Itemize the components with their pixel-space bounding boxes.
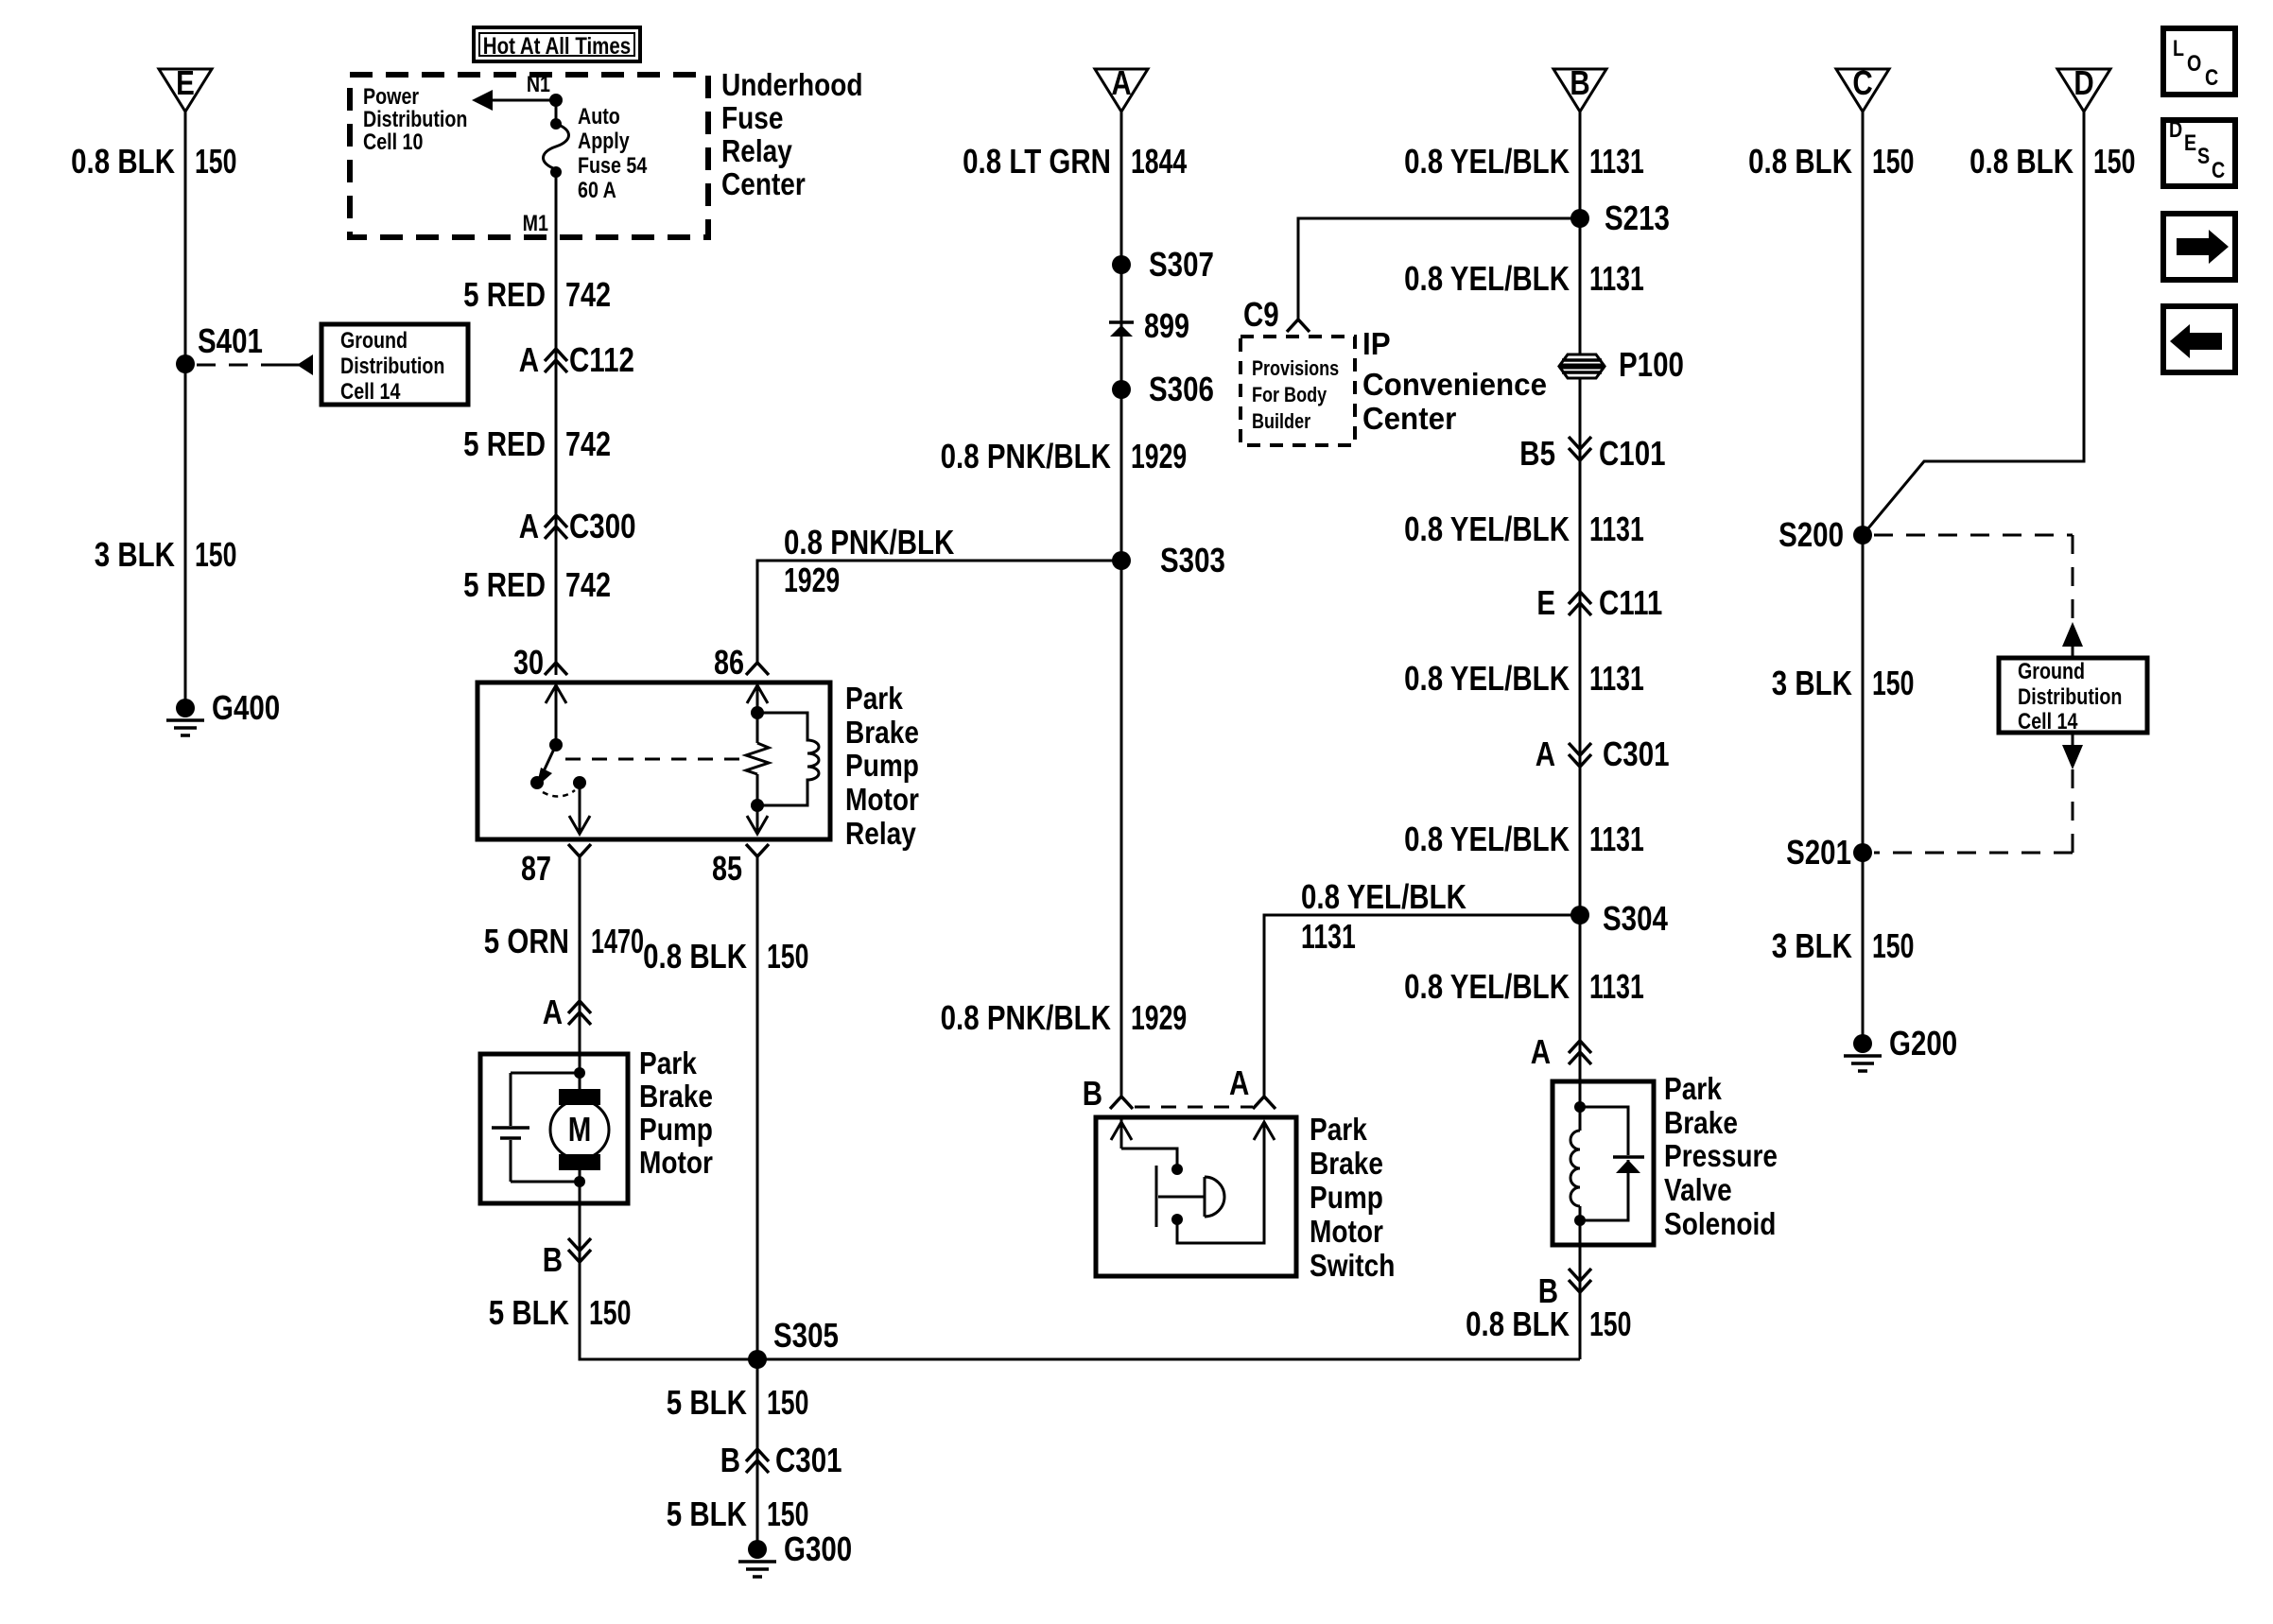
- svg-text:Fuse: Fuse: [721, 101, 783, 136]
- wire S213 to C9: [1298, 218, 1580, 320]
- svg-text:0.8 BLK: 0.8 BLK: [1969, 142, 2073, 180]
- connector triangle A: [1095, 63, 1148, 112]
- splice S200: [1778, 515, 1872, 553]
- svg-text:C: C: [2212, 157, 2225, 182]
- underhood fuse relay center dashed box: [350, 75, 708, 237]
- relay pin 86: [714, 643, 769, 682]
- connector triangle B: [1553, 63, 1606, 112]
- svg-text:D: D: [2073, 63, 2093, 101]
- svg-text:1131: 1131: [1301, 917, 1356, 956]
- svg-text:C301: C301: [775, 1441, 842, 1478]
- svg-text:1131: 1131: [1589, 659, 1644, 698]
- svg-text:Distribution: Distribution: [2018, 683, 2122, 709]
- svg-text:87: 87: [521, 849, 551, 888]
- connector triangle D: [2057, 63, 2110, 112]
- svg-text:0.8 BLK: 0.8 BLK: [1466, 1304, 1570, 1342]
- svg-text:Underhood: Underhood: [721, 68, 863, 103]
- label 0.8 YEL/BLK 1131 (below C111): [1404, 659, 1644, 698]
- splice S307: [1112, 245, 1214, 283]
- label 5 BLK 150 (below S305): [667, 1383, 809, 1422]
- svg-text:Ground: Ground: [340, 327, 408, 353]
- connector C300 pin A: [519, 507, 636, 544]
- dashed leader ground distribution box to S201: [1874, 733, 2083, 853]
- wire relay pin 85 to S305: [756, 856, 759, 1359]
- connector C9: [1243, 295, 1310, 333]
- svg-text:C111: C111: [1599, 583, 1662, 621]
- label 3 BLK 150 (C upper): [1772, 664, 1915, 702]
- svg-text:A: A: [1536, 734, 1555, 772]
- svg-text:Valve: Valve: [1664, 1173, 1732, 1208]
- inline connector P100: [1560, 345, 1684, 383]
- connector solenoid pin B: [1538, 1245, 1591, 1359]
- label Park Brake Pressure Valve Solenoid: [1664, 1072, 1778, 1242]
- svg-text:5 RED: 5 RED: [463, 565, 546, 603]
- svg-text:0.8 YEL/BLK: 0.8 YEL/BLK: [1301, 877, 1466, 915]
- wire A column to switch pin B: [1120, 112, 1123, 1097]
- svg-text:B: B: [720, 1441, 740, 1478]
- wire S303 to relay pin 86: [757, 561, 1121, 663]
- svg-text:Center: Center: [721, 167, 806, 202]
- solenoid park brake pressure valve solenoid box: [1553, 1081, 1654, 1245]
- label Park Brake Pump Motor: [639, 1046, 713, 1181]
- svg-text:Motor: Motor: [639, 1146, 713, 1181]
- label 0.8 LT GRN 1844: [963, 142, 1187, 181]
- switch internals: pressure contacts and pump symbol: [1111, 1119, 1275, 1243]
- svg-text:Motor: Motor: [845, 783, 919, 818]
- splice S201: [1786, 833, 1872, 871]
- switch park brake pump motor switch box: [1096, 1117, 1296, 1276]
- svg-text:Ground: Ground: [2018, 658, 2085, 683]
- solenoid internals: coil with clamp diode: [1570, 1083, 1644, 1245]
- svg-text:Park: Park: [1310, 1113, 1368, 1148]
- svg-text:S303: S303: [1160, 541, 1225, 579]
- svg-text:C301: C301: [1603, 734, 1670, 772]
- svg-text:E: E: [2184, 130, 2196, 155]
- legend left-arrow box: [2163, 306, 2235, 372]
- svg-text:0.8 YEL/BLK: 0.8 YEL/BLK: [1404, 259, 1570, 297]
- label 0.8 YEL/BLK 1131 (below S304): [1404, 967, 1644, 1006]
- label 0.8 PNK/BLK 1929 (upper): [941, 437, 1188, 475]
- svg-text:Builder: Builder: [1252, 410, 1310, 433]
- svg-text:Motor: Motor: [1310, 1215, 1383, 1250]
- svg-text:742: 742: [565, 565, 611, 604]
- svg-text:Hot At All Times: Hot At All Times: [483, 32, 631, 59]
- svg-text:B: B: [1083, 1074, 1102, 1112]
- label 3 BLK 150 (C lower): [1772, 926, 1915, 965]
- splice S305: [748, 1316, 839, 1369]
- svg-text:Park: Park: [1664, 1072, 1723, 1107]
- svg-text:0.8 YEL/BLK: 0.8 YEL/BLK: [1404, 510, 1570, 547]
- label Power Distribution Cell 10: [363, 83, 467, 154]
- connector solenoid pin A: [1531, 1032, 1591, 1070]
- wire motor pin B to S305: [580, 1201, 1580, 1359]
- label 0.8 PNK/BLK 1929 (stacked at 86 wire): [784, 523, 955, 599]
- splice S306: [1112, 370, 1214, 407]
- svg-text:Apply: Apply: [578, 128, 630, 153]
- label 0.8 YEL/BLK 1131 (below C301): [1404, 820, 1644, 858]
- relay pin 30: [513, 643, 567, 682]
- switch pin B: [1083, 1074, 1133, 1112]
- svg-text:C: C: [1852, 63, 1872, 101]
- relay park brake pump motor relay box: [477, 682, 830, 839]
- svg-text:E: E: [1536, 583, 1555, 621]
- svg-text:5 RED: 5 RED: [463, 275, 546, 313]
- label 5 BLK 150 (bottom): [667, 1494, 809, 1533]
- svg-text:D: D: [2169, 116, 2182, 142]
- svg-text:3 BLK: 3 BLK: [1772, 664, 1852, 701]
- splice S401: [176, 321, 263, 373]
- svg-text:150: 150: [1589, 1304, 1631, 1343]
- svg-text:S201: S201: [1786, 833, 1851, 871]
- svg-text:Provisions: Provisions: [1252, 357, 1339, 380]
- svg-text:S305: S305: [773, 1316, 839, 1354]
- svg-text:0.8 YEL/BLK: 0.8 YEL/BLK: [1404, 142, 1570, 180]
- label 0.8 YEL/BLK 1131 (top): [1404, 142, 1644, 181]
- svg-text:30: 30: [513, 643, 544, 682]
- connector motor pin B: [543, 1238, 591, 1279]
- dashed leader S200 to ground distribution cell 14 (right): [1874, 535, 2083, 658]
- label 0.8 YEL/BLK 1131 (below C101): [1404, 510, 1644, 548]
- motor internals: armature M and battery contact: [492, 1056, 609, 1201]
- svg-text:B5: B5: [1519, 434, 1555, 472]
- svg-text:C112: C112: [569, 340, 634, 378]
- svg-text:M1: M1: [523, 210, 548, 235]
- svg-text:150: 150: [1872, 664, 1914, 702]
- svg-text:B: B: [543, 1240, 563, 1278]
- svg-text:742: 742: [565, 275, 611, 314]
- svg-text:899: 899: [1144, 306, 1189, 345]
- ground G400: [166, 688, 280, 735]
- diode 899: [1109, 306, 1189, 345]
- label 0.8 BLK 150 (D column): [1969, 142, 2135, 181]
- svg-text:1929: 1929: [1131, 998, 1187, 1037]
- label IP Convenience Center: [1362, 326, 1547, 436]
- svg-text:1131: 1131: [1589, 510, 1644, 548]
- svg-text:Pump: Pump: [1310, 1181, 1383, 1216]
- relay internal dashed actuator link: [565, 758, 744, 761]
- svg-text:IP: IP: [1362, 326, 1391, 361]
- svg-text:G300: G300: [784, 1529, 852, 1567]
- wire M1 to relay pin 30: [555, 172, 558, 675]
- wire S401 to G400: [184, 364, 187, 708]
- svg-text:150: 150: [767, 1494, 808, 1533]
- svg-text:85: 85: [712, 849, 742, 888]
- svg-text:0.8 PNK/BLK: 0.8 PNK/BLK: [941, 437, 1112, 475]
- splice S303: [1112, 541, 1225, 579]
- label 0.8 BLK 150 (pin 85 wire): [643, 937, 808, 976]
- svg-text:C9: C9: [1243, 295, 1279, 333]
- fuse 54 auto apply 60 A: [544, 100, 648, 202]
- svg-text:C: C: [2205, 64, 2218, 90]
- svg-text:Pressure: Pressure: [1664, 1139, 1778, 1174]
- svg-text:Brake: Brake: [845, 716, 919, 751]
- svg-text:60 A: 60 A: [578, 177, 616, 202]
- wire D column to S200: [1863, 112, 2084, 535]
- ground distribution cell 14 box (left): [321, 324, 468, 405]
- svg-text:Brake: Brake: [1664, 1106, 1738, 1141]
- svg-text:A: A: [1531, 1032, 1551, 1070]
- svg-text:Fuse 54: Fuse 54: [578, 152, 648, 178]
- svg-text:1929: 1929: [1131, 437, 1187, 475]
- svg-text:150: 150: [1872, 926, 1914, 965]
- svg-text:A: A: [519, 340, 539, 378]
- svg-text:B: B: [1570, 63, 1589, 101]
- label 0.8 YEL/BLK 1131 (below S213): [1404, 259, 1644, 298]
- label 0.8 BLK 150 (solenoid ground): [1466, 1304, 1631, 1343]
- svg-text:Solenoid: Solenoid: [1664, 1207, 1776, 1242]
- svg-text:Relay: Relay: [721, 134, 792, 169]
- relay pin 87: [521, 844, 591, 888]
- label 5 ORN 1470: [484, 922, 644, 960]
- svg-text:5 RED: 5 RED: [463, 424, 546, 462]
- svg-text:For Body: For Body: [1252, 384, 1327, 406]
- svg-text:S307: S307: [1149, 245, 1214, 283]
- svg-text:Park: Park: [845, 682, 904, 717]
- node N1 with arrow toward power distribution: [472, 71, 563, 111]
- svg-text:G400: G400: [212, 688, 280, 726]
- svg-text:1131: 1131: [1589, 820, 1644, 858]
- label 5 BLK 150 (motor ground): [489, 1293, 632, 1332]
- legend LOC box: [2163, 28, 2235, 95]
- ground G300: [738, 1529, 852, 1577]
- svg-text:S: S: [2197, 143, 2210, 168]
- svg-text:0.8 BLK: 0.8 BLK: [71, 142, 175, 180]
- ground distribution cell 14 box (right): [1999, 658, 2147, 734]
- svg-text:N1: N1: [527, 71, 550, 96]
- svg-text:0.8 LT GRN: 0.8 LT GRN: [963, 142, 1111, 180]
- splice S213: [1570, 199, 1670, 236]
- svg-text:1844: 1844: [1131, 142, 1188, 181]
- connector triangle C: [1836, 63, 1889, 112]
- connector C111 pin E: [1536, 583, 1662, 621]
- connector triangle E: [159, 63, 212, 112]
- label 5 RED 742 (3): [463, 565, 611, 604]
- svg-text:Cell 14: Cell 14: [2018, 708, 2078, 734]
- wire S304 to switch pin A: [1264, 915, 1582, 1097]
- svg-text:0.8 PNK/BLK: 0.8 PNK/BLK: [784, 523, 955, 561]
- svg-text:Brake: Brake: [1310, 1147, 1383, 1182]
- connector C112 pin A: [519, 340, 634, 378]
- svg-text:86: 86: [714, 643, 744, 682]
- label 0.8 YEL/BLK 1131 (stacked at switch wire): [1301, 877, 1466, 956]
- dashed leader S401 to ground distribution cell 14: [197, 354, 313, 375]
- svg-text:S306: S306: [1149, 370, 1214, 407]
- svg-text:150: 150: [195, 535, 236, 574]
- svg-text:Brake: Brake: [639, 1080, 713, 1114]
- svg-text:O: O: [2187, 50, 2201, 76]
- svg-text:0.8 YEL/BLK: 0.8 YEL/BLK: [1404, 967, 1570, 1005]
- svg-text:150: 150: [195, 142, 236, 181]
- svg-text:150: 150: [1872, 142, 1914, 181]
- svg-text:Relay: Relay: [845, 817, 916, 852]
- svg-text:0.8 BLK: 0.8 BLK: [1748, 142, 1852, 180]
- svg-text:Convenience: Convenience: [1362, 367, 1547, 402]
- svg-text:150: 150: [2093, 142, 2135, 181]
- provisions for body builder dashed box: [1241, 337, 1355, 445]
- label 5 RED 742 (1): [463, 275, 611, 314]
- svg-text:0.8 YEL/BLK: 0.8 YEL/BLK: [1404, 659, 1570, 697]
- wire pin 87 to motor pin A: [579, 856, 581, 1054]
- svg-text:Pump: Pump: [845, 749, 919, 784]
- svg-text:P100: P100: [1619, 345, 1684, 383]
- svg-text:Distribution: Distribution: [340, 353, 444, 378]
- svg-text:Auto: Auto: [578, 103, 620, 129]
- svg-text:C101: C101: [1599, 434, 1666, 472]
- svg-text:Park: Park: [639, 1046, 698, 1081]
- label 0.8 PNK/BLK 1929 (lower A column): [941, 998, 1188, 1037]
- svg-text:0.8 YEL/BLK: 0.8 YEL/BLK: [1404, 820, 1570, 857]
- svg-text:A: A: [543, 993, 563, 1030]
- wire C column to G200: [1862, 112, 1865, 1044]
- svg-text:3 BLK: 3 BLK: [1772, 926, 1852, 964]
- Hot At All Times box: [474, 27, 640, 61]
- svg-text:A: A: [1111, 63, 1131, 101]
- svg-text:Pump: Pump: [639, 1113, 713, 1148]
- svg-text:Cell 14: Cell 14: [340, 378, 401, 404]
- connector C301 pin B (bottom): [720, 1441, 842, 1478]
- splice S304: [1570, 899, 1669, 937]
- svg-text:0.8 PNK/BLK: 0.8 PNK/BLK: [941, 998, 1112, 1036]
- svg-text:742: 742: [565, 424, 611, 463]
- label 0.8 BLK 150 (C column): [1748, 142, 1914, 181]
- svg-text:M: M: [568, 1110, 592, 1148]
- svg-text:150: 150: [589, 1293, 631, 1332]
- wire B column to solenoid pin A: [1579, 112, 1582, 1081]
- svg-text:150: 150: [767, 1383, 808, 1422]
- label 5 RED 742 (2): [463, 424, 611, 463]
- connector motor pin A: [543, 993, 591, 1030]
- svg-text:S304: S304: [1603, 899, 1669, 937]
- wire E to S401: [184, 112, 187, 364]
- label Park Brake Pump Motor Switch: [1310, 1113, 1395, 1284]
- svg-text:S401: S401: [198, 321, 263, 359]
- svg-text:5 BLK: 5 BLK: [667, 1494, 747, 1532]
- svg-text:S200: S200: [1778, 515, 1844, 553]
- svg-text:C300: C300: [569, 507, 636, 544]
- svg-text:E: E: [176, 63, 195, 101]
- label Underhood Fuse Relay Center: [721, 68, 863, 202]
- svg-text:Center: Center: [1362, 401, 1457, 436]
- svg-text:A: A: [519, 507, 539, 544]
- svg-text:S213: S213: [1605, 199, 1670, 236]
- motor park brake pump motor box: [480, 1054, 628, 1203]
- svg-text:1470: 1470: [591, 923, 644, 961]
- relay coil and resistor pin 86 to pin 85: [746, 684, 819, 834]
- svg-text:3 BLK: 3 BLK: [95, 535, 175, 573]
- svg-text:A: A: [1229, 1063, 1249, 1101]
- svg-text:Switch: Switch: [1310, 1249, 1395, 1284]
- svg-text:1131: 1131: [1589, 967, 1644, 1006]
- svg-text:G200: G200: [1889, 1024, 1957, 1062]
- svg-text:1131: 1131: [1589, 142, 1644, 181]
- relay switch contact pin 30 to pin 87: [530, 684, 590, 834]
- switch pin A: [1229, 1063, 1275, 1109]
- svg-text:5 ORN: 5 ORN: [484, 922, 569, 959]
- ground G200: [1844, 1024, 1957, 1071]
- connector C101 pin B5: [1519, 434, 1665, 472]
- label 3 BLK 150 (E column): [95, 535, 237, 574]
- svg-text:1131: 1131: [1589, 259, 1644, 298]
- svg-text:150: 150: [767, 937, 808, 976]
- dashed link between switch pins: [1135, 1106, 1253, 1109]
- relay pin 85: [712, 844, 769, 888]
- svg-text:1929: 1929: [784, 561, 840, 599]
- label Park Brake Pump Motor Relay: [845, 682, 919, 852]
- legend DESC box: [2163, 116, 2235, 186]
- legend right-arrow box: [2163, 214, 2235, 280]
- wire S305 to G300: [756, 1359, 759, 1549]
- connector C301 pin A: [1536, 734, 1670, 772]
- svg-text:5 BLK: 5 BLK: [489, 1293, 569, 1331]
- svg-text:L: L: [2173, 35, 2184, 60]
- svg-text:5 BLK: 5 BLK: [667, 1383, 747, 1421]
- svg-text:0.8 BLK: 0.8 BLK: [643, 937, 747, 975]
- svg-text:Cell 10: Cell 10: [363, 129, 423, 154]
- label 0.8 BLK 150 (E column): [71, 142, 236, 181]
